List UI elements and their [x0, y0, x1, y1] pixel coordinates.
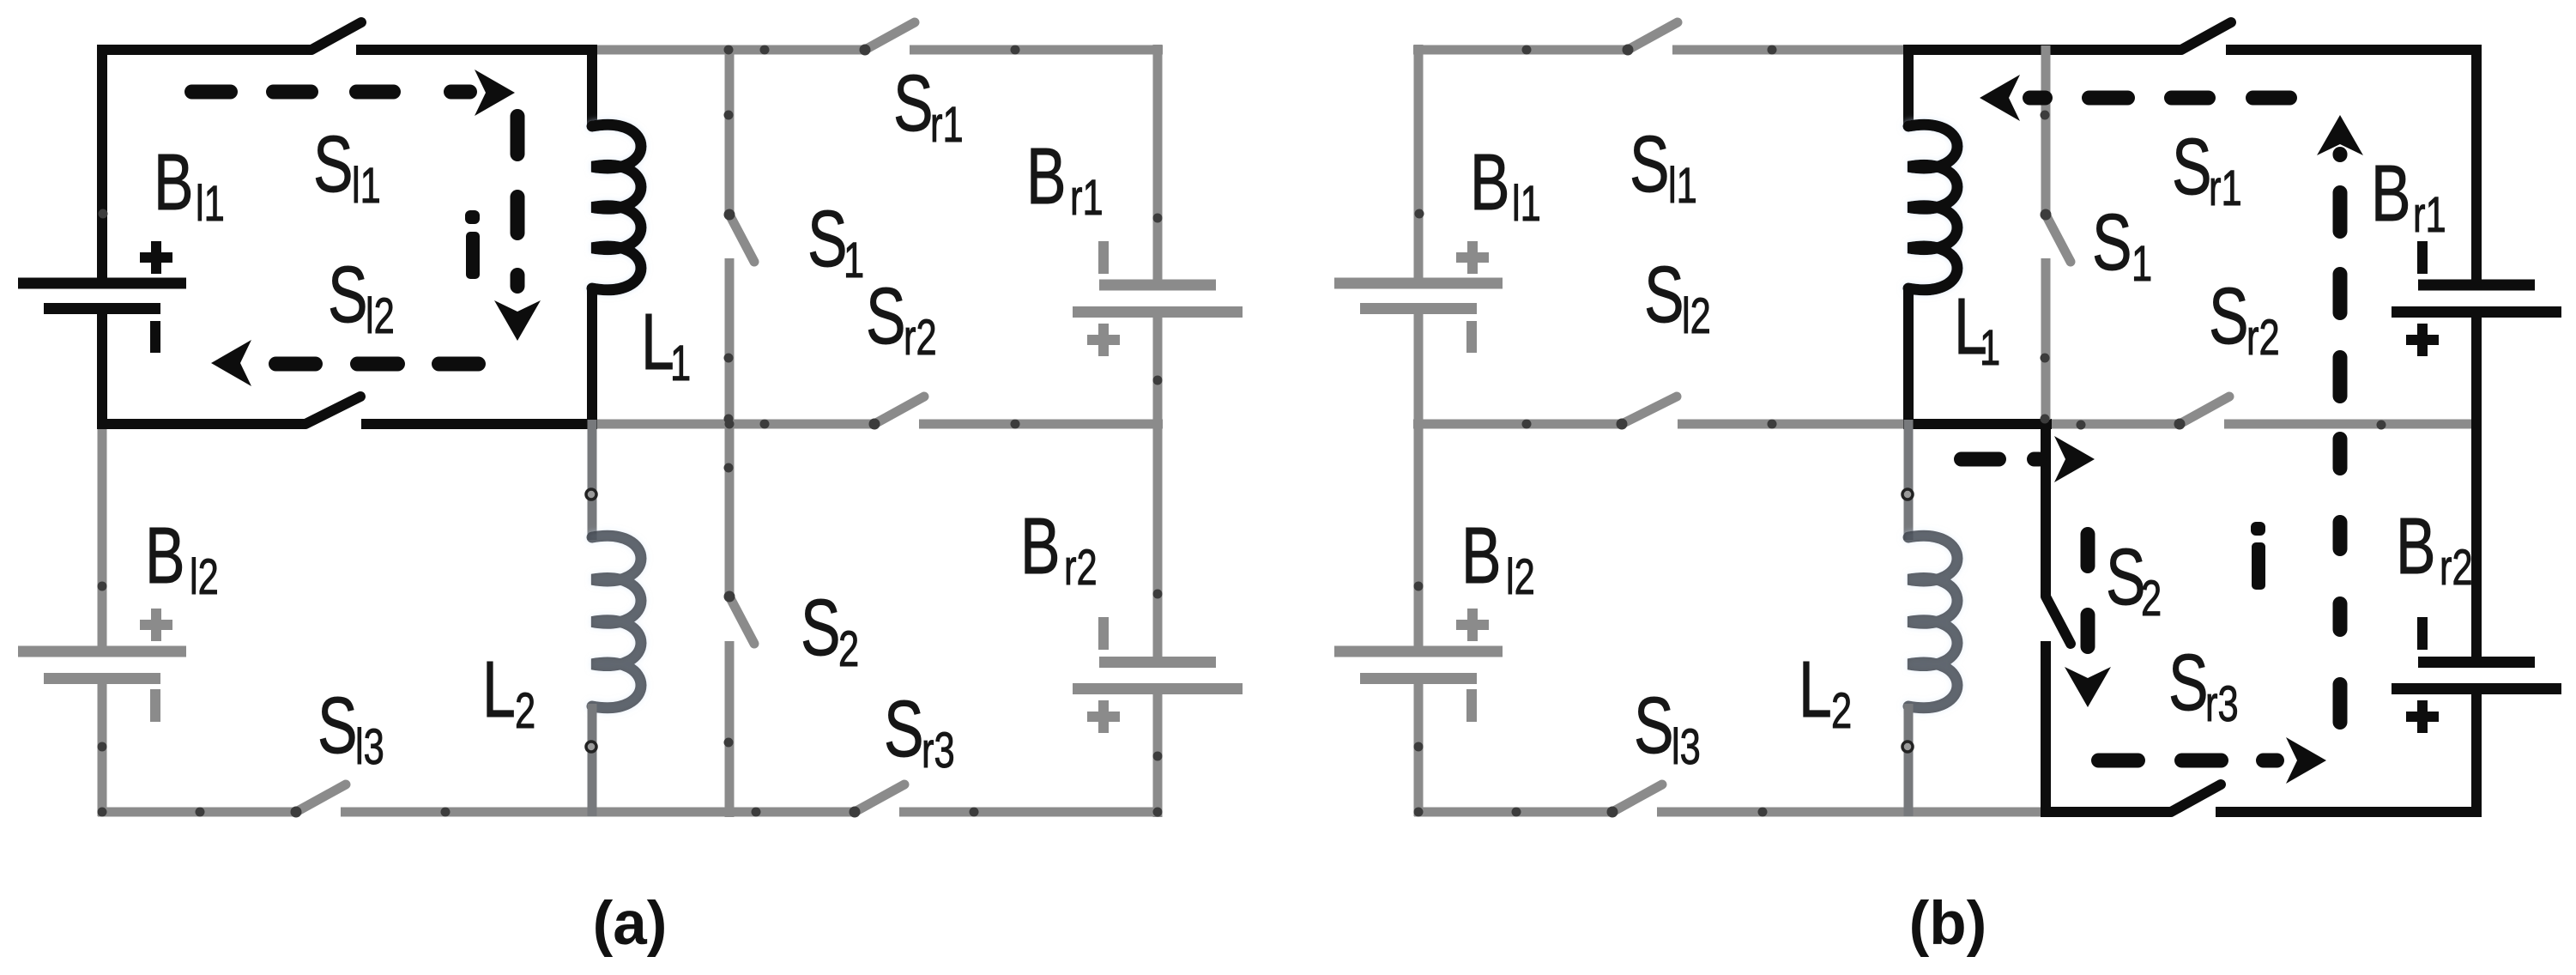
svg-text:r3: r3	[922, 723, 955, 778]
svg-text:S: S	[1634, 681, 1674, 770]
svg-text:S: S	[801, 584, 841, 672]
svg-text:r1: r1	[2209, 160, 2242, 215]
junction dot right rail (a)	[1153, 214, 1163, 761]
inductor L2 (b)	[1908, 420, 1957, 816]
wire right rail (b)	[2471, 45, 2482, 817]
battery Bl1 (a)	[18, 241, 186, 353]
label Sr3 (a)	[884, 685, 955, 778]
switch Sr2 blade (a)	[874, 397, 924, 424]
vertex ring L2 bottom (b)	[1902, 742, 1913, 752]
switch pivot dot Sl3 (b)	[1607, 807, 1618, 818]
svg-text:1: 1	[670, 336, 691, 391]
switch pivot dot S2 (a)	[724, 591, 735, 603]
current arrow dash top (b)	[2030, 91, 2290, 106]
switch pivot dot S1 (a)	[724, 209, 735, 221]
svg-text:B: B	[1470, 138, 1510, 227]
svg-text:r3: r3	[2205, 676, 2239, 731]
current label i (a)	[465, 210, 480, 279]
svg-text:2: 2	[515, 683, 535, 738]
label L2 (b)	[1799, 645, 1852, 738]
label S1 (b)	[2092, 198, 2152, 291]
junction dot middle rail (b)	[1522, 420, 2386, 430]
current arrowhead right middle (b)	[2054, 436, 2095, 482]
svg-text:L: L	[482, 645, 516, 734]
battery Br2 (a)	[1073, 617, 1243, 733]
switch pivot dot Sr3 (a)	[850, 807, 861, 818]
svg-text:l1: l1	[196, 176, 225, 231]
switch S1 (b)	[2046, 45, 2071, 428]
svg-text:l1: l1	[1512, 176, 1541, 231]
label L1 (a)	[641, 298, 691, 391]
svg-text:S: S	[2168, 639, 2209, 727]
switch Sr3 blade (b)	[2171, 784, 2221, 812]
svg-text:l2: l2	[1506, 549, 1535, 604]
svg-text:B: B	[1026, 132, 1067, 221]
current arrowhead left (a)	[211, 340, 251, 386]
label Sr3 (b)	[2168, 639, 2239, 731]
switch Sl2 blade (a)	[305, 397, 360, 424]
svg-text:S: S	[1644, 251, 1684, 339]
svg-text:l1: l1	[352, 158, 381, 213]
label Sr1 (a)	[893, 59, 964, 152]
svg-text:r2: r2	[2246, 310, 2280, 365]
junction dot left rail (b)	[1414, 209, 1424, 752]
battery Bl2 (b)	[1334, 609, 1503, 722]
junction dot S2 line (a)	[724, 463, 734, 748]
svg-text:S: S	[1630, 120, 1670, 209]
switch Sr3 blade (a)	[855, 784, 904, 812]
wire bottom rail black segment (b)	[2041, 807, 2482, 817]
current arrow dash bottom (a)	[276, 357, 479, 372]
svg-text:B: B	[1020, 502, 1061, 590]
svg-text:l1: l1	[1668, 158, 1697, 213]
vertex ring L2 bottom (a)	[586, 742, 596, 752]
switch Sr1 blade (a)	[865, 22, 915, 50]
svg-text:r1: r1	[930, 97, 964, 152]
wire right rail (a)	[1153, 45, 1163, 817]
switch pivot dot Sl3 (a)	[291, 807, 302, 818]
wire middle rail left segment (a)	[97, 419, 597, 429]
svg-text:L: L	[641, 298, 674, 386]
svg-text:(b): (b)	[1909, 890, 1987, 958]
svg-text:S: S	[317, 681, 358, 770]
junction dot bottom rail (a)	[98, 808, 1163, 817]
svg-text:B: B	[1461, 512, 1502, 600]
svg-text:S: S	[313, 120, 354, 209]
wire top rail right segment (b)	[1903, 45, 2482, 55]
current arrow dash right vertical (a)	[511, 117, 525, 287]
switch Sl3 blade (a)	[296, 784, 346, 812]
svg-text:B: B	[2396, 502, 2436, 590]
label Sr2 (a)	[866, 272, 937, 365]
current arrow dash bottom (b)	[2099, 754, 2277, 768]
current arrowhead right (a)	[475, 70, 515, 116]
switch Sl2 blade (b)	[1622, 397, 1677, 424]
svg-text:l3: l3	[1672, 719, 1701, 774]
switch pivot dot Sr1 (a)	[860, 45, 871, 56]
svg-text:S: S	[807, 195, 848, 283]
current label i (b)	[2251, 522, 2265, 590]
svg-text:B: B	[154, 138, 194, 227]
svg-text:S: S	[2172, 123, 2212, 211]
label Sl2 (a)	[328, 251, 395, 343]
switch pivot dot Sl1 (b)	[1623, 45, 1634, 56]
svg-text:1: 1	[1980, 320, 2000, 375]
svg-text:S: S	[328, 251, 368, 339]
label L2 (a)	[482, 645, 535, 738]
label Br2 (a)	[1020, 502, 1098, 595]
wire bottom rail (a)	[98, 808, 1162, 817]
switch pivot dot Sr2 (a)	[869, 419, 880, 430]
wire middle rail left segment (b)	[1413, 420, 1914, 429]
vertex ring L2 top (b)	[1902, 489, 1913, 500]
wire top rail left segment (a)	[97, 45, 597, 55]
svg-text:S: S	[2106, 533, 2146, 621]
battery Br2 (b)	[2392, 617, 2561, 733]
battery Br1 (a)	[1073, 241, 1243, 356]
label Sl1 (b)	[1630, 120, 1697, 213]
label S1 (a)	[807, 195, 864, 288]
svg-text:l2: l2	[366, 288, 395, 343]
label S2 (a)	[801, 584, 859, 676]
svg-text:(a): (a)	[593, 890, 668, 958]
label S2 (b)	[2106, 533, 2162, 626]
wire bottom rail (b)	[1414, 808, 2481, 817]
svg-text:l3: l3	[355, 719, 384, 774]
svg-text:l2: l2	[190, 549, 219, 604]
label Sl3 (b)	[1634, 681, 1701, 774]
inductor L1 (a)	[592, 45, 641, 429]
switch Sr1 blade (b)	[2181, 22, 2231, 50]
svg-text:r2: r2	[904, 310, 937, 365]
battery Br1 (b)	[2392, 241, 2561, 356]
junction dot bottom rail (b)	[1414, 808, 1768, 817]
label Bl1 (b)	[1470, 138, 1541, 231]
label Br1 (b)	[2371, 149, 2446, 242]
junction dot S1 line (a)	[724, 111, 734, 424]
switch Sl1 blade (b)	[1628, 22, 1678, 50]
inductor L2 (a)	[592, 420, 641, 816]
current arrow dash middle (b)	[1962, 452, 2040, 467]
current arrowhead up (b)	[2317, 115, 2363, 155]
svg-text:L: L	[1799, 645, 1832, 734]
svg-text:l2: l2	[1682, 288, 1711, 343]
label Bl1 (a)	[154, 138, 225, 231]
label Sr2 (b)	[2209, 272, 2280, 365]
junction dot middle rail (a)	[725, 420, 1020, 429]
label Sl3 (a)	[317, 681, 384, 774]
wire left rail (b)	[1414, 45, 1424, 816]
svg-text:B: B	[2371, 149, 2411, 238]
wire middle rail black segment (b)	[1903, 419, 2052, 429]
caption (a)	[593, 890, 668, 958]
wire top rail left segment (b)	[1413, 45, 1914, 55]
switch Sl3 blade (b)	[1612, 784, 1662, 812]
label Bl2 (b)	[1461, 512, 1535, 604]
switch pivot dot Sl2 (b)	[1617, 419, 1628, 430]
current arrow dash top (a)	[192, 85, 470, 100]
label Sr1 (b)	[2172, 123, 2242, 215]
svg-text:1: 1	[2132, 236, 2152, 291]
current arrowhead down (a)	[494, 300, 541, 341]
svg-text:S: S	[2092, 198, 2132, 287]
junction dot left rail (a)	[98, 209, 108, 752]
switch S2 (b)	[2046, 420, 2071, 817]
svg-text:2: 2	[2141, 571, 2162, 626]
battery Bl1 (b)	[1334, 241, 1503, 353]
junction dot S1 line (b)	[2041, 111, 2050, 424]
svg-text:r2: r2	[1064, 540, 1098, 595]
svg-text:r1: r1	[1070, 170, 1104, 225]
switch S1 (a)	[729, 45, 754, 428]
svg-text:S: S	[893, 59, 934, 148]
label Sl2 (b)	[1644, 251, 1711, 343]
label Sl1 (a)	[313, 120, 381, 213]
vertex ring L2 top (a)	[586, 489, 596, 500]
junction dot top rail (b)	[1522, 45, 1777, 55]
svg-text:2: 2	[838, 621, 859, 676]
svg-text:S: S	[2209, 272, 2249, 360]
switch pivot dot Sr2 (b)	[2174, 419, 2186, 430]
wire left rail (a)	[97, 45, 107, 816]
inductor L1 (b)	[1908, 45, 1957, 429]
switch Sr2 blade (b)	[2180, 397, 2229, 424]
current arrowhead down S2 (b)	[2065, 667, 2111, 707]
label Br2 (b)	[2396, 502, 2473, 595]
switch pivot dot S1 (b)	[2041, 209, 2052, 221]
current arrow dash S2 vertical (b)	[2081, 535, 2095, 647]
svg-text:B: B	[145, 512, 185, 600]
caption (b)	[1909, 890, 1987, 958]
svg-text:S: S	[866, 272, 906, 360]
switch S2 (a)	[729, 420, 754, 817]
svg-text:r1: r1	[2413, 187, 2446, 242]
current arrow dash vertical (b)	[2333, 154, 2348, 723]
label L1 (b)	[1954, 282, 2000, 375]
wire top rail right segment (a)	[592, 45, 1163, 55]
current arrowhead left top (b)	[1980, 75, 2020, 121]
switch Sl1 blade (a)	[311, 22, 361, 50]
svg-text:S: S	[884, 685, 924, 773]
label Br1 (a)	[1026, 132, 1104, 225]
current arrowhead right bottom (b)	[2286, 737, 2326, 784]
svg-text:r2: r2	[2440, 540, 2473, 595]
battery Bl2 (a)	[18, 609, 186, 722]
wire middle rail right segment (b)	[1903, 420, 2482, 429]
svg-text:2: 2	[1831, 683, 1852, 738]
junction dot top rail (a)	[724, 45, 1020, 55]
label Bl2 (a)	[145, 512, 219, 604]
svg-text:1: 1	[844, 233, 864, 288]
wire middle rail right segment (a)	[587, 420, 1163, 429]
